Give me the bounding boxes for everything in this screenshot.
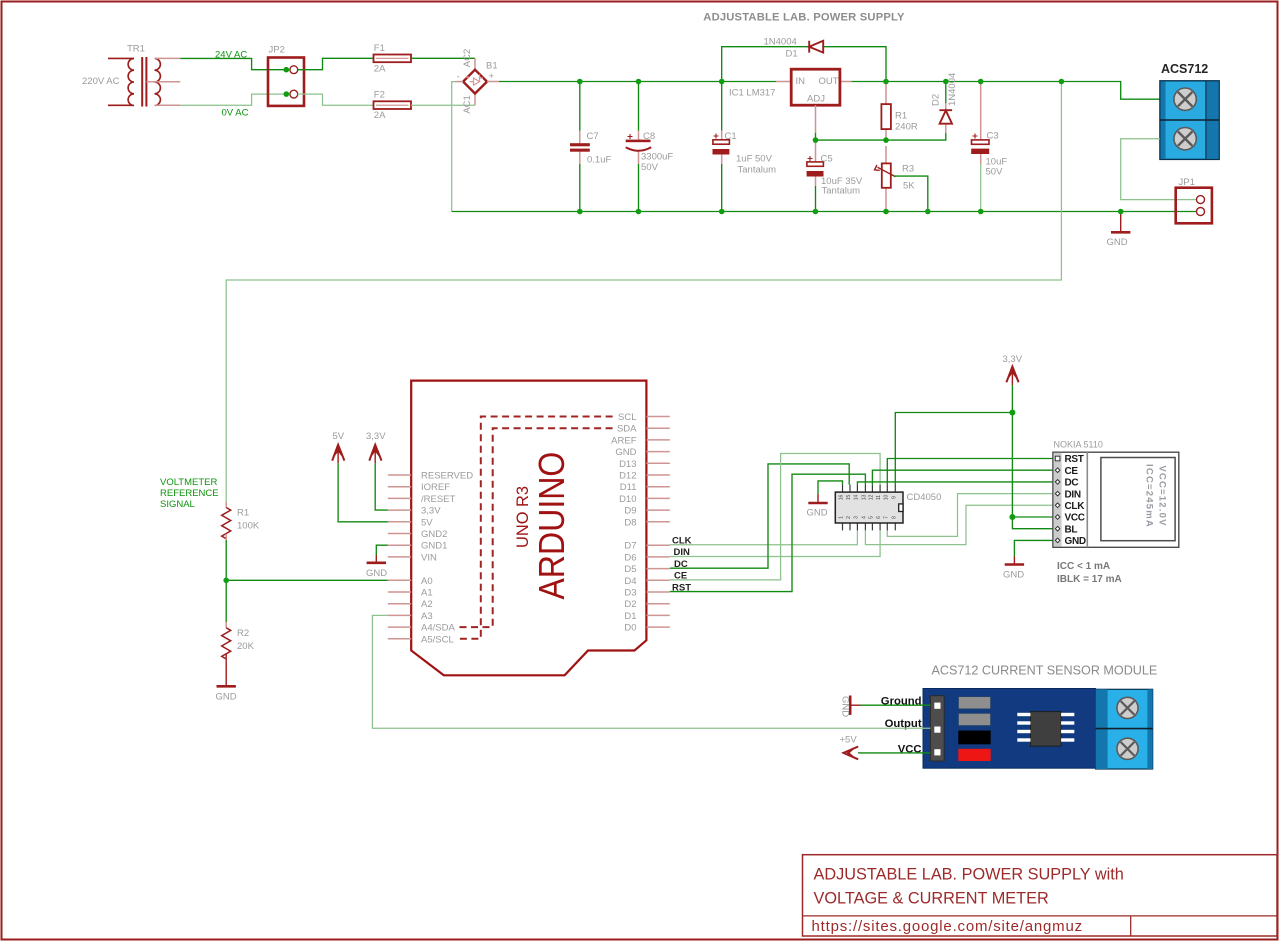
svg-text:IC1 LM317: IC1 LM317 [729,88,775,99]
svg-text:3,3V: 3,3V [366,431,386,442]
svg-text:13: 13 [861,495,867,501]
svg-text:3: 3 [853,516,859,519]
svg-text:CLK: CLK [1065,501,1086,512]
svg-text:ICC < 1 mA: ICC < 1 mA [1057,561,1110,572]
svg-text:6: 6 [876,516,882,519]
svg-text:1N4004: 1N4004 [764,37,797,48]
svg-text:UNO R3: UNO R3 [513,486,532,548]
svg-text:CE: CE [1065,466,1079,477]
svg-text:B1: B1 [486,61,498,72]
svg-text:ACS712: ACS712 [1161,62,1208,76]
svg-text:12: 12 [868,495,874,501]
svg-text:+: + [489,71,495,82]
svg-text:VCC=12.0V: VCC=12.0V [1157,465,1168,526]
svg-text:0.1uF: 0.1uF [587,155,611,166]
svg-text:100K: 100K [237,521,260,532]
svg-text:F2: F2 [374,90,385,101]
svg-text:C3: C3 [987,131,999,142]
svg-text:RST: RST [1065,454,1084,465]
svg-text:SIGNAL: SIGNAL [160,499,195,510]
svg-text:R2: R2 [237,628,249,639]
svg-text:F1: F1 [374,43,385,54]
svg-text:VCC: VCC [898,744,922,756]
svg-text:A4/SDA: A4/SDA [421,623,455,634]
svg-text:JP2: JP2 [269,45,285,56]
svg-text:2A: 2A [374,64,386,75]
svg-text:https://sites.google.com/site/: https://sites.google.com/site/angmuz [812,918,1083,935]
svg-text:R1: R1 [895,111,907,122]
svg-text:7: 7 [883,516,889,519]
svg-text:ICC=245mA: ICC=245mA [1143,464,1154,528]
svg-text:SCL: SCL [618,412,636,423]
svg-text:IOREF: IOREF [421,482,450,493]
svg-text:D13: D13 [619,459,636,470]
svg-text:C1: C1 [725,131,737,142]
svg-text:D2: D2 [624,599,636,610]
svg-text:C8: C8 [643,131,655,142]
svg-text:1N4004: 1N4004 [947,73,958,106]
svg-text:4: 4 [861,516,867,519]
svg-text:VOLTAGE & CURRENT METER: VOLTAGE & CURRENT METER [814,890,1049,908]
svg-text:D1: D1 [786,49,798,60]
svg-text:OUT: OUT [819,76,839,87]
svg-text:D10: D10 [619,494,636,505]
svg-text:3,3V: 3,3V [1003,354,1023,365]
svg-text:DC: DC [1065,478,1079,489]
svg-text:GND: GND [366,568,387,579]
svg-text:D8: D8 [624,517,636,528]
svg-text:GND1: GND1 [421,541,447,552]
svg-text:3,3V: 3,3V [421,506,441,517]
svg-text:/RESET: /RESET [421,494,456,505]
svg-text:5: 5 [868,516,874,519]
svg-text:D11: D11 [620,482,637,493]
svg-text:0V AC: 0V AC [222,108,249,119]
svg-text:A0: A0 [421,576,433,587]
svg-text:A2: A2 [421,599,433,610]
svg-text:5K: 5K [903,181,915,192]
svg-text:ACS712 CURRENT SENSOR MODULE: ACS712 CURRENT SENSOR MODULE [932,664,1158,678]
svg-text:D4: D4 [624,576,636,587]
svg-text:BL: BL [1065,524,1078,535]
svg-text:C5: C5 [821,154,833,165]
svg-text:14: 14 [853,495,859,501]
svg-text:AC1: AC1 [462,95,473,113]
svg-text:ADJUSTABLE LAB. POWER SUPPLY w: ADJUSTABLE LAB. POWER SUPPLY with [814,866,1124,884]
svg-text:VOLTMETER: VOLTMETER [160,477,217,488]
svg-text:D6: D6 [624,552,636,563]
svg-text:24V AC: 24V AC [215,50,247,61]
svg-text:VIN: VIN [421,552,437,563]
svg-text:C7: C7 [587,131,599,142]
svg-text:20K: 20K [237,641,255,652]
svg-text:A5/SCL: A5/SCL [421,634,454,645]
svg-text:CD4050: CD4050 [907,492,942,503]
svg-text:11: 11 [876,495,882,500]
svg-text:ADJUSTABLE LAB. POWER SUPPLY: ADJUSTABLE LAB. POWER SUPPLY [703,12,905,24]
svg-text:D9: D9 [624,506,636,517]
svg-text:AC2: AC2 [462,49,473,67]
svg-text:D5: D5 [624,564,636,575]
svg-text:240R: 240R [895,122,918,133]
svg-text:GND: GND [807,508,828,519]
svg-text:D12: D12 [619,471,636,482]
svg-text:SDA: SDA [617,424,637,435]
svg-text:RESERVED: RESERVED [421,471,473,482]
svg-text:GND: GND [216,692,237,703]
svg-text:GND2: GND2 [421,529,447,540]
svg-text:A3: A3 [421,611,433,622]
svg-text:R3: R3 [902,164,914,175]
svg-text:1: 1 [839,516,845,519]
svg-text:AREF: AREF [611,435,637,446]
svg-text:IBLK = 17 mA: IBLK = 17 mA [1057,574,1122,585]
svg-text:15: 15 [846,495,852,501]
svg-text:ARDUINO: ARDUINO [531,452,572,600]
svg-text:2A: 2A [374,110,386,121]
svg-text:D0: D0 [624,623,636,634]
svg-text:JP1: JP1 [1179,177,1195,188]
svg-text:+5V: +5V [840,735,858,746]
svg-text:D3: D3 [624,588,636,599]
svg-text:R1: R1 [237,508,249,519]
svg-text:TR1: TR1 [127,44,145,55]
svg-text:D1: D1 [624,611,636,622]
svg-text:16: 16 [839,495,845,501]
svg-text:Tantalum: Tantalum [822,186,861,197]
svg-text:GND: GND [1065,536,1086,547]
svg-text:DIN: DIN [1065,489,1081,500]
svg-text:1uF 50V: 1uF 50V [736,154,773,165]
svg-text:GND: GND [615,447,636,458]
svg-text:Tantalum: Tantalum [738,165,777,176]
svg-text:ADJ: ADJ [807,94,825,105]
svg-text:D7: D7 [624,541,636,552]
svg-text:VCC: VCC [1065,513,1085,524]
svg-text:REFERENCE: REFERENCE [160,488,219,499]
svg-text:GND: GND [840,696,851,717]
svg-text:3300uF: 3300uF [641,152,673,163]
svg-text:2: 2 [846,516,852,519]
svg-text:GND: GND [1107,237,1128,248]
svg-text:D2: D2 [931,94,942,106]
svg-text:8: 8 [891,516,897,519]
svg-text:A1: A1 [421,588,433,599]
svg-text:50V: 50V [986,167,1004,178]
svg-text:220V AC: 220V AC [82,76,120,87]
svg-text:NOKIA 5110: NOKIA 5110 [1054,440,1103,450]
svg-text:50V: 50V [641,162,659,173]
svg-text:9: 9 [891,496,897,499]
svg-text:5V: 5V [333,431,345,442]
svg-text:10: 10 [883,495,889,501]
svg-text:IN: IN [796,76,806,87]
svg-text:5V: 5V [421,517,433,528]
svg-text:GND: GND [1003,570,1024,581]
